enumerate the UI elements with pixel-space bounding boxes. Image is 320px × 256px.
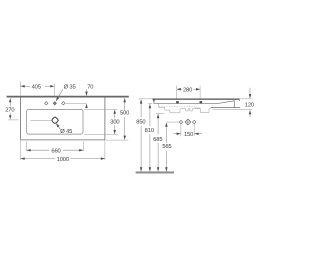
holes extension line <box>65 102 86 104</box>
drain symbol right (front view) <box>193 120 197 124</box>
drain centerline left <box>8 119 19 121</box>
drain circle <box>52 117 58 123</box>
svg-text:Ø 45: Ø 45 <box>60 128 72 135</box>
dim 270 <box>9 98 11 106</box>
hidden bowl bottom dashed <box>159 105 197 107</box>
dim 810 <box>149 104 151 126</box>
underside silhouette <box>159 104 211 113</box>
dim 565 <box>166 121 179 123</box>
svg-text:300: 300 <box>110 118 119 125</box>
drain centerline right <box>30 119 52 121</box>
apron bottom and right edge <box>211 107 241 109</box>
dim 660 <box>26 141 28 151</box>
svg-text:850: 850 <box>136 119 145 126</box>
dim 120 <box>249 88 251 98</box>
label diameter 45 <box>56 123 61 130</box>
810 tick <box>148 102 153 104</box>
svg-text:1000: 1000 <box>57 156 69 163</box>
dim 850 <box>140 100 142 118</box>
svg-text:405: 405 <box>32 83 41 90</box>
floor line <box>136 171 174 173</box>
basin outer rect (plan view) <box>21 97 105 140</box>
svg-text:810: 810 <box>145 127 154 134</box>
basin inner bowl (plan view) <box>27 109 83 134</box>
fixing hole right (front view) <box>200 101 203 103</box>
svg-text:500: 500 <box>120 110 129 117</box>
dim 405 <box>20 81 22 96</box>
front view lower front line <box>154 101 234 108</box>
svg-text:70: 70 <box>87 84 93 91</box>
dim 150 <box>180 124 182 136</box>
rim left extension <box>139 98 153 100</box>
floor band <box>136 173 174 174</box>
svg-text:565: 565 <box>162 143 171 150</box>
dim 1000 <box>21 158 56 160</box>
dim 685 <box>157 114 159 135</box>
svg-text:150: 150 <box>184 131 193 138</box>
front view rim line <box>152 98 239 100</box>
rim right extension <box>239 98 252 100</box>
dim 500 <box>124 98 126 110</box>
fixing hole left (front view) <box>176 101 179 103</box>
svg-text:Ø 35: Ø 35 <box>64 84 76 91</box>
svg-text:270: 270 <box>5 107 14 114</box>
svg-text:660: 660 <box>51 147 60 154</box>
outer bottom extension to 500 <box>106 139 128 141</box>
dim 300 <box>114 110 116 119</box>
dim 280 <box>176 86 178 99</box>
bracket line / 685 tick <box>156 112 164 114</box>
dim 300 extension lines <box>84 108 117 110</box>
svg-text:685: 685 <box>153 136 162 143</box>
svg-text:120: 120 <box>245 102 254 109</box>
svg-text:280: 280 <box>183 87 192 94</box>
faucet hole right <box>62 102 65 105</box>
drain symbol center (front view) <box>185 119 191 125</box>
faucet hole middle <box>53 102 56 105</box>
wall line (plan view) <box>7 96 129 98</box>
drain symbol left (front view) <box>179 120 183 124</box>
front view left edge <box>153 99 155 102</box>
faucet hole left <box>45 102 48 105</box>
drain diamond <box>52 117 59 124</box>
